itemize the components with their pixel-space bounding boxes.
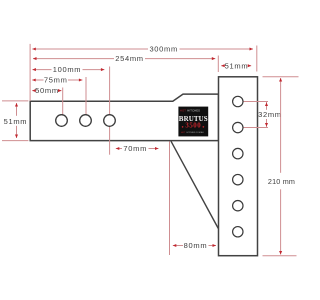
svg-text:32mm: 32mm bbox=[258, 110, 282, 119]
svg-text:80mm: 80mm bbox=[184, 241, 208, 250]
svg-text:51mm: 51mm bbox=[225, 61, 249, 70]
svg-text:75mm: 75mm bbox=[44, 76, 68, 85]
svg-text:254mm: 254mm bbox=[115, 54, 144, 63]
svg-text:50mm: 50mm bbox=[35, 86, 59, 95]
svg-text:210 mm: 210 mm bbox=[268, 177, 295, 186]
svg-text:100mm: 100mm bbox=[53, 65, 82, 74]
svg-text:70mm: 70mm bbox=[123, 144, 147, 153]
svg-text:HITCHES.COM.AU: HITCHES.COM.AU bbox=[187, 131, 205, 134]
svg-text:HITCHES: HITCHES bbox=[187, 108, 200, 112]
svg-text:51mm: 51mm bbox=[4, 117, 28, 126]
svg-text:HOT: HOT bbox=[180, 108, 186, 112]
svg-text:300mm: 300mm bbox=[149, 45, 178, 54]
